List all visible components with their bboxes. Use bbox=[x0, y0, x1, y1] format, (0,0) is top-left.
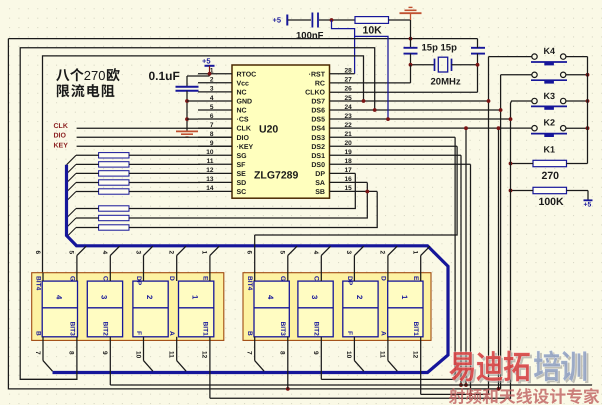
svg-text:1: 1 bbox=[201, 251, 208, 255]
svg-text:9: 9 bbox=[312, 351, 319, 355]
svg-text:GND: GND bbox=[237, 99, 253, 106]
wire K2 right bbox=[566, 127, 588, 129]
svg-text:DS5: DS5 bbox=[311, 117, 325, 124]
wire ground wrap left bbox=[8, 39, 500, 389]
svg-text:12: 12 bbox=[412, 351, 419, 359]
svg-text:SA: SA bbox=[315, 180, 325, 187]
resistor R7 270 bbox=[99, 215, 129, 220]
svg-text:BIT2: BIT2 bbox=[313, 322, 320, 337]
svg-text:18: 18 bbox=[345, 158, 353, 165]
wire bottom long bbox=[110, 384, 592, 386]
svg-text:BIT3: BIT3 bbox=[68, 322, 75, 337]
display DS1 bottom pin wires bbox=[42, 337, 44, 361]
svg-text:+5: +5 bbox=[273, 16, 282, 25]
svg-text:RC: RC bbox=[315, 80, 325, 87]
segment bus bbox=[53, 165, 449, 373]
svg-text:DS0: DS0 bbox=[311, 162, 325, 169]
svg-text:RTOC: RTOC bbox=[237, 71, 257, 78]
wire gnd to pin6 bbox=[187, 118, 198, 120]
svg-text:9: 9 bbox=[101, 351, 108, 355]
wire DS1 column bbox=[460, 155, 462, 385]
svg-text:CLK: CLK bbox=[54, 123, 68, 130]
svg-text:20: 20 bbox=[345, 140, 353, 147]
svg-text:K3: K3 bbox=[544, 91, 556, 101]
svg-text:SC: SC bbox=[237, 189, 247, 196]
ground GND1 bbox=[410, 14, 412, 21]
svg-text:SF: SF bbox=[237, 162, 247, 169]
svg-text:C: C bbox=[313, 276, 320, 281]
U20 pin 28 ·RST bbox=[330, 73, 355, 75]
U20 pin 15 SB bbox=[330, 190, 378, 192]
svg-text:5: 5 bbox=[68, 251, 75, 255]
U20 pin 3 NC bbox=[198, 91, 232, 93]
svg-text:1: 1 bbox=[400, 295, 409, 300]
svg-text:Vcc: Vcc bbox=[237, 80, 250, 87]
svg-text:13: 13 bbox=[206, 176, 214, 183]
svg-text:A: A bbox=[379, 331, 386, 336]
wire K5 right bbox=[566, 74, 588, 76]
svg-text:1: 1 bbox=[191, 295, 200, 300]
svg-text:2: 2 bbox=[355, 295, 364, 300]
wire R11 left bbox=[511, 190, 534, 192]
resistor R1 270 bbox=[99, 153, 129, 158]
U20 pin 18 DS0 bbox=[330, 163, 471, 165]
svg-text:11: 11 bbox=[168, 351, 175, 358]
svg-text:28: 28 bbox=[345, 68, 353, 75]
wire CLK bbox=[77, 127, 232, 129]
wire R11 right to +5 bbox=[567, 190, 589, 192]
wire DS4 branch column bbox=[465, 128, 467, 385]
U20 pin 17 DP bbox=[330, 172, 356, 174]
svg-text:DS3: DS3 bbox=[311, 135, 325, 142]
watermark logo yiditop bbox=[451, 352, 588, 383]
svg-text:DP: DP bbox=[346, 276, 353, 286]
svg-text:SB: SB bbox=[315, 189, 325, 196]
svg-text:D: D bbox=[379, 276, 386, 281]
resistor R4 270 bbox=[99, 180, 129, 185]
svg-text:17: 17 bbox=[345, 167, 353, 174]
crystal Y1 20MHz bbox=[410, 54, 412, 65]
svg-text:4: 4 bbox=[312, 251, 319, 255]
wire K4 left bbox=[489, 56, 532, 58]
svg-text:4: 4 bbox=[54, 295, 63, 300]
svg-text:3: 3 bbox=[310, 295, 319, 300]
svg-text:·RST: ·RST bbox=[309, 71, 326, 78]
resistor R5 270 bbox=[99, 189, 129, 194]
svg-text:10: 10 bbox=[134, 351, 141, 359]
svg-text:100nF: 100nF bbox=[296, 31, 324, 42]
resistor R8 270 bbox=[99, 225, 129, 230]
display DS1 digit cell 2 bbox=[133, 281, 168, 337]
wire SB net pin15 to R8 bbox=[129, 192, 377, 228]
U20 pin 7 CLK bbox=[198, 127, 232, 129]
svg-text:DP: DP bbox=[135, 276, 142, 286]
wire K3 right bbox=[566, 100, 588, 102]
svg-text:23: 23 bbox=[345, 113, 353, 120]
svg-text:SE: SE bbox=[237, 171, 247, 178]
wire SA net pin16 to R7 bbox=[129, 183, 367, 219]
U20 pin 1 RTOC bbox=[198, 73, 232, 75]
svg-text:6: 6 bbox=[34, 251, 41, 255]
svg-text:12: 12 bbox=[201, 351, 208, 359]
U20 pin 21 DS3 bbox=[330, 136, 456, 138]
U20 pin 4 GND bbox=[198, 100, 232, 102]
wire R10 left bbox=[511, 163, 534, 165]
wire DS6 net wrap bbox=[20, 48, 375, 380]
svg-text:4: 4 bbox=[210, 95, 214, 102]
power +5 label P3 bbox=[587, 191, 589, 201]
svg-text:2: 2 bbox=[210, 77, 214, 84]
svg-text:24: 24 bbox=[345, 104, 353, 111]
wire K4 right bbox=[566, 56, 588, 58]
label eight 270ohm resistors bbox=[56, 69, 69, 81]
svg-text:DS1: DS1 bbox=[311, 153, 325, 160]
svg-text:+5: +5 bbox=[584, 202, 592, 209]
svg-text:3: 3 bbox=[210, 86, 214, 93]
switch K5 unlabeled bbox=[532, 72, 537, 77]
svg-text:4: 4 bbox=[101, 251, 108, 255]
display DS1 digit cell 3 bbox=[87, 281, 122, 337]
wire gnd to pin4 bbox=[187, 100, 198, 102]
wire KEY bbox=[77, 145, 232, 147]
svg-text:·CS: ·CS bbox=[237, 117, 249, 124]
svg-text:BIT4: BIT4 bbox=[246, 276, 253, 291]
wire +5 to C1 bbox=[288, 19, 311, 21]
wire DS0 column bbox=[470, 164, 472, 394]
watermark subtitle bbox=[449, 388, 600, 404]
wire K4 column bbox=[421, 57, 489, 395]
svg-text:3: 3 bbox=[134, 251, 141, 255]
wire +5 to C2 bbox=[187, 75, 210, 77]
svg-text:12: 12 bbox=[206, 167, 214, 174]
wire crystal to RC pin 27 bbox=[410, 65, 412, 83]
svg-text:20MHz: 20MHz bbox=[431, 77, 461, 88]
svg-text:G: G bbox=[68, 276, 75, 281]
svg-text:6: 6 bbox=[246, 251, 253, 255]
wire C2 to ground bbox=[186, 91, 188, 132]
resistor R2 270 bbox=[99, 162, 129, 167]
svg-text:·KEY: ·KEY bbox=[237, 144, 254, 151]
svg-text:21: 21 bbox=[345, 131, 353, 138]
svg-text:2: 2 bbox=[379, 251, 386, 255]
svg-text:U20: U20 bbox=[259, 124, 278, 136]
U20 pin 20 DS2 bbox=[330, 145, 458, 147]
svg-text:15p 15p: 15p 15p bbox=[422, 43, 458, 54]
display DS2 digit cell 4 bbox=[254, 281, 289, 337]
resistor R3 270 bbox=[99, 171, 129, 176]
svg-text:7: 7 bbox=[246, 351, 253, 355]
U20 pin 11 SF bbox=[198, 163, 232, 165]
U20 pin 16 SA bbox=[330, 181, 368, 183]
svg-text:CLK: CLK bbox=[237, 126, 251, 133]
svg-text:KEY: KEY bbox=[54, 142, 69, 149]
display DS2 digit cell 1 bbox=[388, 281, 423, 337]
svg-text:ZLG7289: ZLG7289 bbox=[254, 170, 299, 182]
svg-text:+5: +5 bbox=[202, 57, 211, 66]
svg-text:15: 15 bbox=[345, 185, 353, 192]
display DS2 digit cell 3 bbox=[298, 281, 333, 337]
svg-text:8: 8 bbox=[279, 351, 286, 355]
wire RST net to pin 28 bbox=[332, 20, 355, 74]
wire K5 column bbox=[500, 75, 502, 389]
svg-text:B: B bbox=[246, 331, 253, 336]
wire DS3 net bbox=[321, 137, 455, 379]
svg-text:11: 11 bbox=[207, 158, 214, 165]
svg-text:F: F bbox=[135, 331, 142, 335]
capacitor C1 100nF bbox=[311, 13, 313, 28]
svg-text:BIT1: BIT1 bbox=[201, 322, 208, 337]
wire CLKO pin 26 to crystal bbox=[330, 91, 478, 93]
svg-text:BIT4: BIT4 bbox=[34, 276, 41, 291]
U20 pin 6 ·CS bbox=[198, 118, 232, 120]
svg-text:3: 3 bbox=[345, 251, 352, 255]
U20 pin 14 SC bbox=[198, 190, 232, 192]
display DS2 bottom pin wires bbox=[254, 337, 256, 361]
svg-text:270: 270 bbox=[84, 68, 106, 83]
svg-text:10K: 10K bbox=[363, 25, 383, 37]
wire ground rail bbox=[8, 38, 477, 40]
svg-text:DS6: DS6 bbox=[311, 108, 325, 115]
svg-text:2: 2 bbox=[145, 295, 154, 300]
display DS2 digit cell 2 bbox=[343, 281, 378, 337]
svg-text:8: 8 bbox=[68, 351, 75, 355]
svg-text:27: 27 bbox=[345, 77, 353, 84]
svg-text:E: E bbox=[412, 276, 419, 281]
svg-text:11: 11 bbox=[379, 351, 386, 358]
U20 pin 10 SG bbox=[198, 154, 232, 156]
display DS2 body bbox=[243, 273, 431, 341]
svg-text:1: 1 bbox=[412, 251, 419, 255]
U20 pin 19 DS1 bbox=[330, 154, 462, 156]
U20 pin 5 NC bbox=[198, 109, 232, 111]
node RST junction bbox=[330, 18, 334, 22]
svg-text:DS2: DS2 bbox=[311, 144, 325, 151]
svg-text:100K: 100K bbox=[539, 196, 565, 208]
svg-text:7: 7 bbox=[34, 351, 41, 355]
svg-text:E: E bbox=[201, 276, 208, 281]
wire DS7 net wrap bbox=[43, 56, 364, 281]
U20 pin 2 Vcc bbox=[198, 82, 232, 84]
svg-text:6: 6 bbox=[210, 113, 214, 120]
svg-text:DIO: DIO bbox=[237, 135, 250, 142]
wire K2 column bbox=[498, 130, 500, 389]
svg-text:22: 22 bbox=[345, 122, 353, 129]
wire DS5 net stub bbox=[355, 36, 388, 119]
svg-text:G: G bbox=[279, 276, 286, 281]
U20 pin 9 ·KEY bbox=[198, 145, 232, 147]
svg-text:D: D bbox=[168, 276, 175, 281]
wire gnd stem to crystal caps bbox=[410, 20, 412, 48]
svg-text:16: 16 bbox=[345, 176, 353, 183]
wire right rail keys bbox=[587, 57, 589, 164]
svg-text:K2: K2 bbox=[544, 118, 556, 128]
svg-text:10: 10 bbox=[345, 351, 352, 359]
wire DP net pin17 to R6 bbox=[129, 173, 355, 208]
wire K3 column bbox=[210, 101, 532, 398]
U20 pin 25 DS7 bbox=[330, 100, 489, 102]
svg-text:19: 19 bbox=[345, 149, 353, 156]
svg-text:A: A bbox=[168, 331, 175, 336]
svg-text:14: 14 bbox=[206, 185, 214, 192]
svg-text:DP: DP bbox=[315, 171, 325, 178]
svg-text:SD: SD bbox=[237, 180, 247, 187]
IC U20 ZLG7289 body bbox=[232, 65, 330, 198]
svg-text:DS7: DS7 bbox=[311, 99, 325, 106]
svg-text:5: 5 bbox=[279, 251, 286, 255]
svg-text:NC: NC bbox=[237, 108, 247, 115]
resistor R9 10K bbox=[355, 17, 389, 24]
wire R9 to ground bbox=[389, 19, 411, 21]
U20 pin 8 DIO bbox=[198, 136, 232, 138]
wire DIO bbox=[77, 136, 232, 138]
resistor R11 100K bbox=[533, 187, 567, 193]
svg-text:CLKO: CLKO bbox=[305, 90, 325, 97]
svg-text:C: C bbox=[102, 276, 109, 281]
wire K5 left bbox=[501, 74, 532, 76]
svg-text:NC: NC bbox=[237, 90, 247, 97]
svg-text:BIT1: BIT1 bbox=[412, 322, 419, 337]
U20 pin 23 DS5 bbox=[330, 118, 511, 120]
svg-text:BIT2: BIT2 bbox=[102, 322, 109, 337]
svg-text:270: 270 bbox=[542, 170, 560, 182]
svg-text:3: 3 bbox=[99, 295, 108, 300]
U20 pin 22 DS4 bbox=[330, 127, 532, 129]
resistor R10 270 bbox=[533, 160, 567, 166]
svg-text:BIT3: BIT3 bbox=[279, 322, 286, 337]
svg-text:4: 4 bbox=[266, 295, 275, 300]
svg-text:5: 5 bbox=[210, 104, 214, 111]
svg-text:F: F bbox=[346, 331, 353, 335]
svg-text:DS4: DS4 bbox=[311, 126, 325, 133]
display DS1 body bbox=[32, 273, 224, 341]
wire R10 right bbox=[567, 163, 588, 165]
ground GND2 bbox=[176, 130, 198, 132]
capacitor C4 15p right bbox=[471, 47, 485, 49]
display DS1 digit cell 4 bbox=[42, 281, 77, 337]
U20 pin 13 SD bbox=[198, 181, 232, 183]
display DS1 digit cell 1 bbox=[179, 281, 214, 337]
resistor R6 270 bbox=[99, 206, 129, 211]
U20 pin 12 SE bbox=[198, 172, 232, 174]
capacitor C3 15p left bbox=[404, 47, 418, 49]
svg-text:2: 2 bbox=[168, 251, 175, 255]
svg-text:26: 26 bbox=[345, 86, 353, 93]
svg-text:DIO: DIO bbox=[54, 133, 67, 140]
svg-text:25: 25 bbox=[345, 95, 353, 102]
svg-text:SG: SG bbox=[237, 153, 248, 160]
wire C1 to R9 bbox=[319, 19, 355, 21]
svg-text:K1: K1 bbox=[544, 145, 556, 155]
svg-text:K4: K4 bbox=[544, 46, 556, 56]
wire DS2 net bbox=[255, 146, 457, 235]
svg-text:0.1uF: 0.1uF bbox=[149, 69, 180, 83]
U20 pin 24 DS6 bbox=[330, 109, 501, 111]
svg-text:10: 10 bbox=[206, 149, 214, 156]
svg-text:B: B bbox=[34, 331, 41, 336]
